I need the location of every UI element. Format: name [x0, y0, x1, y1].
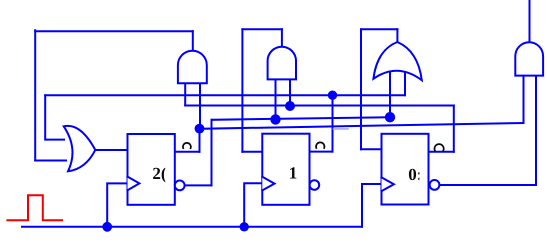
- wire Q3 output: [429, 151, 454, 153]
- wire OR1 output to FF1 D: [95, 149, 127, 151]
- Q label glyph U2: [316, 142, 324, 148]
- wire AND2 left input stub: [275, 79, 277, 119]
- and-gate G2: [268, 47, 296, 80]
- clock triangle U2: [262, 177, 274, 191]
- wire Q3' riser to AND4 right input: [535, 76, 537, 185]
- node junction NetF/OR3: [385, 112, 395, 122]
- wire AND2 output: [281, 29, 283, 46]
- flip-flop U2 box: [262, 134, 309, 205]
- label 2 on U1: [152, 164, 167, 183]
- label 0 on U3: [408, 165, 422, 184]
- inverted output bubble U3: [430, 180, 440, 190]
- Q label glyph U1: [183, 143, 191, 148]
- wire D3 drop: [360, 29, 362, 149]
- wire NetB Q3 to AND1/AND2: [185, 105, 454, 107]
- clock triangle U1: [128, 177, 140, 191]
- and-gate G1: [178, 51, 207, 83]
- wire OR3 output: [396, 29, 398, 44]
- wire NetB right drop: [453, 106, 455, 152]
- inverted output bubble U2: [310, 180, 320, 190]
- node junction NetB/AND2: [285, 101, 295, 111]
- wire D2 entry: [242, 151, 262, 153]
- wire L1 bus: [45, 94, 405, 96]
- wire AND2 right input stub: [289, 79, 291, 105]
- wire NetF Q1' to AND2/OR3 (sloped): [212, 117, 391, 120]
- wire left vertical: [34, 30, 36, 160]
- node junction clock/FF1: [102, 222, 112, 232]
- svg-text:1: 1: [289, 164, 298, 183]
- node junction clock/FF2: [240, 222, 249, 231]
- wire D2 drop: [241, 29, 243, 152]
- wire AND1 right input: [199, 83, 201, 129]
- wire Q2 output: [310, 151, 333, 153]
- svg-text:2(: 2(: [152, 164, 167, 183]
- wire AND1 output: [192, 31, 194, 51]
- node junction Q2/L1: [328, 91, 337, 100]
- Q label glyph U3: [435, 144, 444, 150]
- wire Q1 riser: [199, 129, 201, 152]
- and-gate G4 (right): [515, 42, 543, 75]
- flip-flop U1 box: [128, 134, 175, 205]
- wire AND4 left input stub: [523, 76, 525, 123]
- wire clock rail: [22, 226, 362, 228]
- node junction Q1/AND1: [195, 124, 205, 134]
- wire FF3 clock riser: [362, 184, 382, 227]
- wire AND4 output: [529, 0, 531, 42]
- wire OR1 lower input: [35, 160, 66, 162]
- inverted output bubble U1: [175, 181, 185, 191]
- wire FF2 clock riser: [244, 183, 262, 227]
- or-gate G0 (left): [64, 126, 96, 171]
- wire top-left feedback horizontal: [35, 30, 193, 32]
- wire FF1 clock riser: [107, 183, 127, 226]
- wire Q3' output: [439, 184, 536, 186]
- wire Q1' output: [185, 184, 212, 186]
- node junction NetF/AND2: [270, 114, 280, 124]
- wire OR3 top horizontal: [361, 28, 397, 30]
- wire NetG Q1 to AND4 (sloped): [200, 123, 524, 129]
- clock triangle U3: [382, 177, 394, 191]
- wire OR3 left input stub: [389, 71, 391, 117]
- wire D3 entry: [361, 148, 382, 150]
- wire Q1 output: [175, 151, 200, 153]
- clock pulse source: [7, 195, 62, 220]
- wire OR3 right input stub: [404, 71, 406, 95]
- wire ghost segment near Q2 riser: [334, 128, 349, 130]
- flip-flop U3 box: [382, 134, 429, 205]
- wire AND1 left input: [184, 83, 186, 105]
- wire L1 left drop to OR1 upper input: [45, 95, 64, 139]
- wire Q1' riser: [211, 120, 213, 186]
- wire Q2 riser to L1: [332, 95, 334, 151]
- or-gate G3: [373, 42, 421, 80]
- wire AND2 top horizontal: [242, 28, 282, 30]
